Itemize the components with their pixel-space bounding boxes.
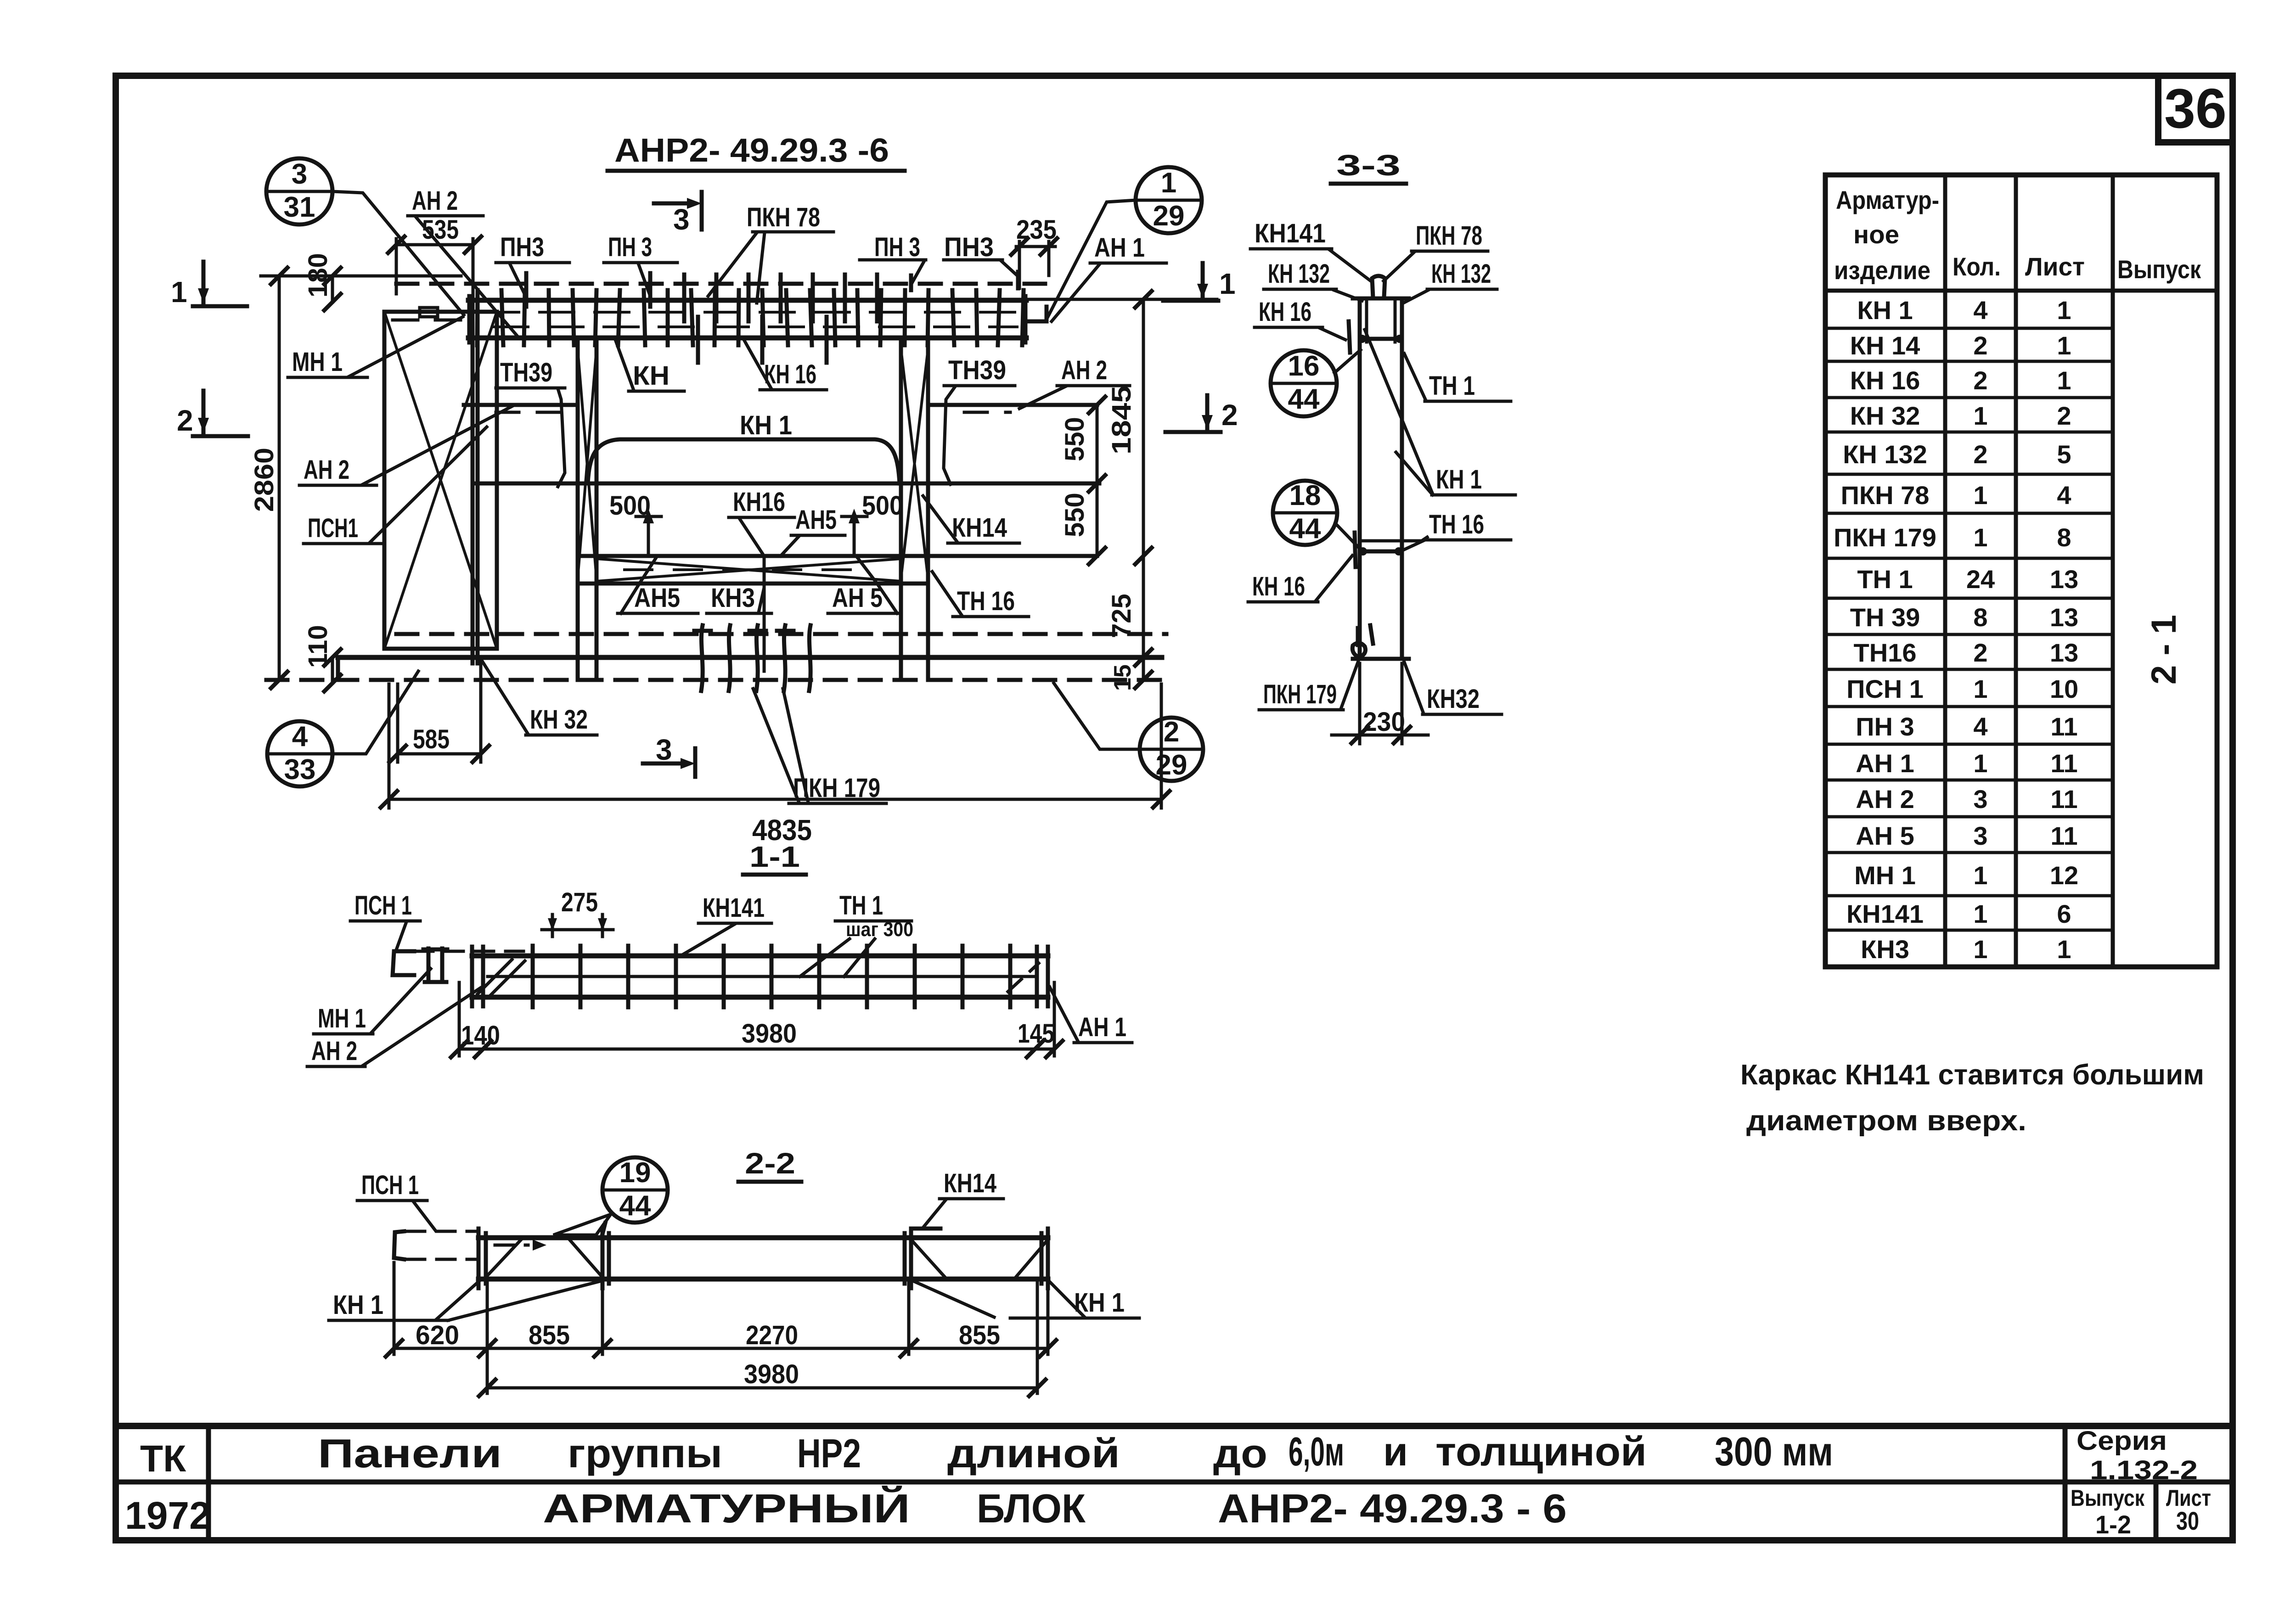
label КН3 (707, 556, 771, 671)
svg-text:КН14: КН14 (944, 1168, 996, 1198)
svg-text:ТК: ТК (140, 1438, 186, 1480)
svg-text:ПКН 78: ПКН 78 (747, 202, 820, 232)
svg-text:1-2: 1-2 (2095, 1510, 2131, 1539)
svg-text:1: 1 (1973, 749, 1987, 778)
svg-text:24: 24 (1966, 565, 1995, 594)
table body: qty column (1966, 296, 1995, 964)
svg-text:2270: 2270 (746, 1320, 798, 1350)
right end hidden diagonals (1008, 963, 1039, 992)
svg-text:ПН3: ПН3 (500, 232, 544, 262)
short hidden dashes at АН2 level left (496, 411, 565, 414)
svg-text:3: 3 (1973, 785, 1987, 814)
grid circle 2/29 (1140, 716, 1203, 781)
МН1 mesh diagonal 1 (384, 312, 497, 649)
svg-text:2 - 1: 2 - 1 (2144, 615, 2183, 685)
label КН14 (923, 496, 1019, 543)
svg-text:1: 1 (2057, 296, 2071, 325)
svg-text:КН 16: КН 16 (1259, 297, 1311, 327)
svg-text:6: 6 (2057, 899, 2071, 928)
svg-text:АН 5: АН 5 (1856, 821, 1914, 850)
svg-text:2-2: 2-2 (745, 1147, 795, 1180)
tall hook ticks (ПКН 78) (684, 275, 877, 363)
svg-text:ТН 1: ТН 1 (1429, 371, 1475, 401)
short hidden dashes at АН2 level right (964, 411, 1010, 414)
top hook ПКН78 (1372, 276, 1385, 297)
dimension 550 upper (1060, 397, 1105, 564)
svg-text:КН 132: КН 132 (1431, 259, 1491, 289)
bottom chord line (338, 655, 1162, 660)
svg-text:изделие: изделие (1834, 256, 1930, 285)
svg-text:КН 1: КН 1 (1436, 465, 1482, 494)
label КН 16 top (744, 340, 827, 390)
leader from circle 3/31 (332, 191, 464, 315)
svg-text:3980: 3980 (742, 1019, 797, 1049)
svg-text:КН141: КН141 (1255, 219, 1326, 248)
svg-text:1: 1 (1973, 674, 1987, 703)
svg-text:длиной: длиной (947, 1431, 1120, 1476)
svg-text:МН 1: МН 1 (1854, 861, 1916, 890)
label КН 16 lower (1248, 533, 1356, 602)
lifting notch on МН1 (420, 308, 438, 317)
svg-text:230: 230 (1363, 707, 1405, 737)
label 500 right with arrow (842, 491, 903, 553)
label ПН3 #2 (604, 232, 677, 307)
svg-text:Кол.: Кол. (1953, 252, 2001, 281)
title block (116, 1426, 2233, 1540)
svg-text:КН 1: КН 1 (740, 410, 792, 440)
right column cage diagonal 2 (901, 349, 928, 578)
top tick at x1320 (602, 1223, 605, 1238)
svg-text:1: 1 (2057, 331, 2071, 360)
panel bottom-left corner drop (336, 657, 340, 680)
label КН 1 section (1365, 330, 1515, 495)
column left wall (1358, 298, 1362, 659)
svg-text:2: 2 (1221, 398, 1238, 432)
sill hidden dashes (625, 568, 872, 571)
svg-text:диаметром вверх.: диаметром вверх. (1746, 1105, 2026, 1137)
label ТН 1 (1-1) (800, 891, 913, 976)
svg-text:10: 10 (2050, 674, 2078, 703)
label АН2 top (408, 186, 519, 338)
label ПН3 #1 (496, 232, 569, 307)
grid circle 4/33 (267, 721, 332, 786)
svg-text:КН 1: КН 1 (333, 1290, 383, 1320)
beam mid bar (488, 975, 1036, 978)
label ТН39 left (496, 358, 565, 487)
label ТН16 (932, 572, 1029, 617)
panel bottom edge (dashed) (266, 678, 1169, 682)
svg-text:11: 11 (2050, 749, 2077, 778)
svg-text:140: 140 (461, 1021, 500, 1050)
dimension 110 (303, 625, 341, 691)
flag leader from 19/44 (553, 1214, 611, 1235)
table row lines (1825, 328, 2113, 930)
МН1 anchor bars (427, 948, 431, 981)
dimension 180 (303, 253, 341, 310)
svg-text:13: 13 (2050, 603, 2078, 632)
sill cage diagonal 2 (597, 559, 901, 581)
left column cage diagonal 2 (578, 349, 597, 578)
svg-text:180: 180 (303, 253, 333, 297)
svg-text:ПСН1: ПСН1 (308, 513, 358, 543)
label КН 132 left (1264, 259, 1362, 301)
svg-text:620: 620 (416, 1320, 459, 1350)
label ТН39 right (944, 355, 1015, 484)
svg-text:110: 110 (303, 625, 333, 668)
stirrups section 1-1 (533, 946, 1010, 1007)
section mark 1 right (1163, 263, 1236, 301)
svg-text:до: до (1213, 1431, 1267, 1476)
svg-text:АН 5: АН 5 (832, 583, 883, 613)
svg-text:12: 12 (2050, 861, 2078, 890)
svg-text:19: 19 (619, 1157, 651, 1189)
svg-text:КН141: КН141 (1846, 899, 1924, 928)
panel top edge (dashed) (396, 282, 1045, 286)
ТН16 step line (1360, 550, 1402, 554)
svg-text:АНР2- 49.29.3 - 6: АНР2- 49.29.3 - 6 (1218, 1486, 1567, 1531)
svg-text:ПН3: ПН3 (944, 232, 994, 262)
svg-text:АН 2: АН 2 (1856, 785, 1914, 814)
label ПКН 78 (708, 202, 833, 303)
interior level line left (АН2 level) (464, 403, 578, 407)
svg-text:КН 32: КН 32 (1850, 401, 1920, 430)
svg-text:4: 4 (292, 721, 308, 752)
band right end bar (1024, 296, 1028, 342)
svg-text:ПСН 1: ПСН 1 (1846, 674, 1924, 703)
svg-text:ПКН 179: ПКН 179 (1834, 523, 1936, 552)
label АН 2 (1-1) (307, 988, 480, 1066)
right box bars (903, 1233, 907, 1284)
label АН5 mid (781, 505, 845, 556)
svg-text:2: 2 (1973, 366, 1987, 395)
svg-text:ПСН 1: ПСН 1 (361, 1170, 419, 1200)
interior level line right (АН2 level) (928, 403, 1097, 407)
opening left column bar 2 (595, 338, 599, 680)
svg-text:145: 145 (1018, 1019, 1054, 1049)
dimension 15 (1109, 664, 1152, 691)
svg-text:550: 550 (1060, 417, 1090, 461)
svg-text:ПКН 179: ПКН 179 (1263, 679, 1337, 709)
svg-text:1: 1 (1973, 401, 1987, 430)
top chord longitudinal bar 2 (494, 325, 1017, 328)
top tick for КН14 (913, 1227, 940, 1231)
svg-text:КН32: КН32 (1427, 684, 1480, 714)
leader from circle 4/33 (332, 671, 418, 754)
svg-text:1: 1 (1161, 167, 1176, 199)
hidden edge above bottom chord (dashed) (396, 632, 1166, 636)
hidden dash arrow inside box (495, 1244, 528, 1247)
svg-text:1972: 1972 (125, 1494, 211, 1537)
label ПСН 1 (2-2) (357, 1170, 435, 1230)
ПКН179 hook ticks bottom (694, 625, 810, 691)
svg-text:КН 1: КН 1 (1857, 296, 1913, 325)
svg-text:4: 4 (2057, 481, 2071, 510)
detail circle 19/44 (602, 1157, 668, 1223)
svg-text:КН 132: КН 132 (1268, 259, 1330, 289)
label ПН3 #3 (860, 232, 926, 290)
svg-text:толщиной: толщиной (1435, 1429, 1647, 1474)
svg-text:3980: 3980 (744, 1359, 799, 1389)
top chord band top line (468, 298, 1026, 303)
svg-text:ТН39: ТН39 (500, 358, 552, 387)
svg-text:МН 1: МН 1 (292, 347, 343, 377)
svg-text:3: 3 (1973, 821, 1987, 850)
opening right column bar 2 (926, 338, 930, 680)
table body: sheet column (2050, 296, 2078, 964)
top chord longitudinal bar 1 (484, 311, 1015, 314)
svg-text:Выпуск: Выпуск (2071, 1485, 2145, 1511)
svg-text:КН 16: КН 16 (1252, 572, 1305, 601)
dimension 230 (1332, 663, 1428, 744)
left end weld diagonals (478, 960, 512, 994)
column inner bar left (1365, 301, 1368, 342)
svg-text:2: 2 (2057, 401, 2071, 430)
svg-text:ТН 1: ТН 1 (1857, 565, 1913, 594)
detail circle 18/44 (1273, 480, 1360, 549)
svg-text:1845: 1845 (1107, 386, 1137, 455)
note text (1740, 1059, 2204, 1137)
beam top chord (2-2) (478, 1235, 1048, 1240)
svg-text:ТН 16: ТН 16 (1429, 510, 1484, 539)
svg-text:ТН 39: ТН 39 (1850, 603, 1920, 632)
svg-text:КН14: КН14 (952, 513, 1007, 543)
dimension 2860 vertical (249, 268, 287, 688)
hidden dashes bottom (2-2) (406, 1258, 478, 1261)
svg-text:КН 16: КН 16 (1850, 366, 1920, 395)
МН1 mesh rectangle (384, 312, 497, 649)
label КН 1 right (2-2) (913, 1281, 1139, 1318)
label КН141 (1-1) (681, 893, 771, 956)
ПСН1 end bracket (2-2) (394, 1231, 404, 1259)
svg-text:Каркас КН141 ставится большим: Каркас КН141 ставится большим (1740, 1059, 2204, 1091)
bottom hook ticks (1356, 628, 1360, 645)
mid level line (550 level) (475, 482, 1099, 486)
svg-text:3: 3 (656, 733, 672, 766)
svg-text:8: 8 (2057, 523, 2071, 552)
detail circle 16/44 (1271, 350, 1361, 416)
svg-text:КН16: КН16 (733, 487, 785, 517)
bottom dims 1-1 (451, 982, 1063, 1057)
МН1 mesh diagonal 2 (384, 312, 497, 649)
dimension 535 (388, 215, 481, 298)
dashed inner top edge of МН1 (393, 319, 464, 322)
sill top line (578, 554, 1097, 558)
label ТН 1 (1404, 354, 1511, 401)
dimension 275 (542, 887, 613, 937)
svg-text:КН 14: КН 14 (1850, 331, 1920, 360)
dimension 4835 (381, 684, 1170, 847)
svg-text:44: 44 (1289, 513, 1321, 544)
top band line (1360, 337, 1402, 341)
extension line top (y=601) (261, 275, 461, 278)
hidden dashes top (2-2) (406, 1230, 478, 1233)
label КН14 (2-2) (923, 1168, 1003, 1228)
label КН 16 upper (1255, 297, 1350, 353)
label КН 1 left (2-2) (329, 1281, 602, 1320)
svg-text:36: 36 (2164, 77, 2227, 140)
svg-text:2: 2 (1973, 331, 1987, 360)
band column bar pair through МН1 (471, 299, 475, 663)
svg-text:4: 4 (1973, 712, 1987, 741)
svg-text:29: 29 (1153, 200, 1185, 232)
label 500 left with arrow (609, 491, 661, 553)
svg-text:1: 1 (1219, 267, 1236, 300)
beam left end bars (470, 947, 474, 1006)
svg-text:Лист: Лист (2025, 252, 2085, 281)
table body: column 1 names (1834, 296, 1936, 964)
section mark 1 left (171, 262, 247, 309)
dim row 1 (2-2) (386, 1263, 1056, 1393)
beam bottom chord (472, 995, 1048, 1000)
beam right end bars (1035, 947, 1039, 1006)
panel top-right corner notch (1029, 307, 1047, 321)
svg-text:группы: группы (568, 1431, 722, 1476)
band left end bar (467, 296, 472, 342)
svg-text:КН 16: КН 16 (764, 359, 816, 389)
box diagonals (486, 1240, 521, 1277)
table header text (1834, 185, 2201, 285)
opening left column bar 1 (576, 338, 580, 680)
svg-text:КН: КН (633, 361, 670, 391)
grid circle 1/29 (1136, 167, 1202, 233)
svg-text:1: 1 (1973, 935, 1987, 964)
section mark 3 bottom (643, 733, 695, 777)
label АН 5 bottom right flag (828, 557, 900, 613)
svg-text:1: 1 (1973, 899, 1987, 928)
svg-text:КН 132: КН 132 (1843, 440, 1927, 469)
svg-text:КН3: КН3 (711, 583, 755, 613)
label АН 1 (1-1) (1050, 987, 1132, 1043)
svg-text:3: 3 (292, 158, 307, 190)
beam top chord (472, 954, 1048, 959)
title АНР2-49.29.3-6 (608, 132, 905, 171)
svg-text:275: 275 (561, 887, 598, 917)
svg-text:3: 3 (673, 203, 690, 236)
hidden dashes to beam (415, 950, 523, 953)
svg-text:2860: 2860 (249, 448, 279, 512)
dim row 2 (2-2) (479, 1283, 1046, 1396)
svg-text:шаг 300: шаг 300 (846, 918, 913, 941)
label КН 32 section (1404, 662, 1502, 714)
svg-text:ПН 3: ПН 3 (1856, 712, 1914, 741)
svg-text:АН 1: АН 1 (1856, 749, 1914, 778)
label КН (615, 340, 684, 391)
svg-text:1: 1 (1973, 481, 1987, 510)
svg-text:Серия: Серия (2077, 1426, 2167, 1456)
svg-text:КН141: КН141 (703, 893, 765, 923)
label КН 16 bottom (729, 487, 794, 553)
label КН 32 (482, 661, 597, 735)
svg-text:1: 1 (2057, 366, 2071, 395)
svg-text:ТН 1: ТН 1 (839, 891, 883, 920)
svg-text:Арматур-: Арматур- (1836, 185, 1939, 214)
column top cap (1353, 297, 1409, 301)
leader from circle 1/29 (1048, 200, 1136, 317)
label АН 2 left (299, 406, 512, 485)
label АН 2 right (1019, 355, 1130, 409)
beam bottom chord (2-2) (478, 1277, 1048, 1282)
svg-text:2: 2 (1973, 440, 1987, 469)
left box bars (477, 1229, 481, 1288)
svg-text:8: 8 (1973, 603, 1987, 632)
svg-text:Панели: Панели (318, 1431, 502, 1476)
svg-text:44: 44 (619, 1190, 651, 1222)
dimension 235 top right (1011, 215, 1057, 288)
svg-text:1: 1 (2057, 935, 2071, 964)
dimension 1845 vertical (1026, 291, 1217, 680)
leader from circle 2/29 (1054, 683, 1140, 749)
svg-text:33: 33 (284, 754, 316, 786)
bottom hook loop ПКН179 (1352, 643, 1365, 657)
svg-text:235: 235 (1016, 215, 1057, 245)
svg-text:13: 13 (2050, 638, 2078, 667)
svg-text:1.132-2: 1.132-2 (2090, 1455, 2198, 1485)
label ПКН 78 (1384, 221, 1488, 281)
svg-text:МН 1: МН 1 (318, 1004, 366, 1033)
svg-text:1: 1 (171, 275, 187, 309)
label ПСН 1 (1-1) (350, 891, 420, 948)
section mark 2 right (1165, 395, 1238, 432)
label МН 1 (288, 317, 463, 377)
svg-text:ПСН 1: ПСН 1 (355, 891, 412, 920)
sill cage diagonal 1 (597, 559, 901, 581)
corner dots top band (1358, 335, 1366, 343)
label ТН 16 section (1403, 510, 1511, 550)
label АН5 bottom left flag (618, 557, 698, 613)
svg-text:2: 2 (177, 404, 193, 437)
svg-text:АН 1: АН 1 (1078, 1012, 1126, 1042)
svg-text:11: 11 (2050, 785, 2077, 814)
label ПКН 179 section (1259, 661, 1358, 710)
sheet number box 36 (2158, 76, 2233, 142)
label ПСН 1 (304, 427, 487, 544)
left column cage diagonal (578, 349, 597, 578)
svg-text:ПН 3: ПН 3 (608, 232, 652, 262)
corner dots mid (1359, 547, 1367, 556)
svg-text:КН3: КН3 (1861, 935, 1909, 964)
svg-text:ПКН 78: ПКН 78 (1841, 481, 1930, 510)
svg-text:АН 2: АН 2 (311, 1036, 357, 1066)
section mark 2 left (177, 391, 248, 437)
svg-text:АН 2: АН 2 (412, 186, 458, 216)
top chord band bottom line (468, 336, 1026, 341)
parts table (1825, 175, 2217, 967)
svg-text:и: и (1383, 1429, 1408, 1474)
ТН16 bracket (1362, 537, 1427, 541)
svg-text:ТН 16: ТН 16 (957, 586, 1015, 616)
svg-text:30: 30 (2176, 1506, 2199, 1535)
svg-text:550: 550 (1060, 493, 1090, 537)
svg-text:1: 1 (1973, 523, 1987, 552)
svg-text:855: 855 (959, 1320, 1000, 1350)
svg-text:18: 18 (1289, 480, 1321, 511)
svg-text:15: 15 (1109, 664, 1136, 691)
sill bottom line (578, 582, 928, 586)
svg-text:11: 11 (2050, 712, 2077, 741)
svg-text:13: 13 (2050, 565, 2078, 594)
right column cage diagonal (901, 349, 928, 578)
dimension 725 (1107, 594, 1152, 666)
svg-text:АРМАТУРНЫЙ: АРМАТУРНЫЙ (543, 1486, 910, 1531)
svg-text:31: 31 (284, 191, 315, 223)
svg-text:2: 2 (1164, 716, 1179, 748)
column bottom cap (1353, 657, 1409, 661)
svg-text:1: 1 (1973, 861, 1987, 890)
svg-text:2: 2 (1973, 638, 1987, 667)
stirrup ticks of top chord (474, 290, 1024, 345)
label КН 132 right (1403, 259, 1497, 303)
svg-text:АН5: АН5 (634, 583, 680, 613)
